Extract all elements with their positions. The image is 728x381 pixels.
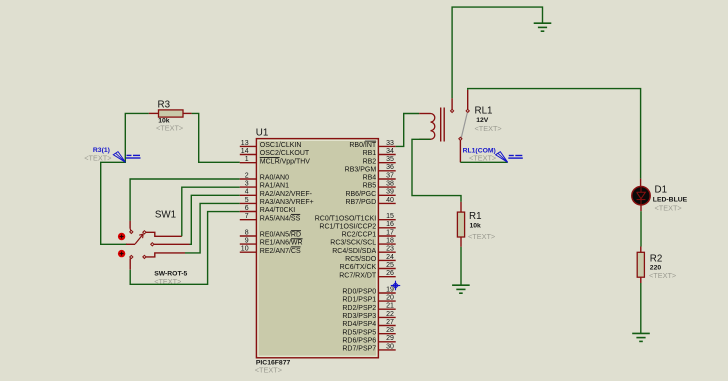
svg-text:OSC2/CLKOUT: OSC2/CLKOUT (260, 150, 310, 157)
wire SW1 throw3 to U1 pin 4 RA2 (190, 195, 240, 244)
U1 pin 28 (RD5/PSP5) (342, 327, 395, 336)
svg-text:29: 29 (386, 335, 394, 342)
wire SW1 throw4 to U1 pin 5 RA3 (185, 203, 240, 253)
svg-text:<TEXT>: <TEXT> (255, 365, 282, 374)
RL1 fixed contact 1 (451, 98, 454, 112)
wire RL1 contact2 to LED branch (468, 89, 641, 179)
svg-text:18: 18 (386, 238, 394, 245)
SW1 property label (154, 277, 181, 286)
SW1 actuator button down (118, 250, 125, 257)
svg-text:RD0/PSP0: RD0/PSP0 (342, 289, 376, 296)
svg-text:33: 33 (386, 140, 394, 147)
svg-text:38: 38 (386, 181, 394, 188)
wire U1 pin33 RB0 to RL1 coil top (396, 114, 420, 147)
svg-text:7: 7 (245, 213, 249, 220)
U1 pin 39 (RB6/PGC) (345, 189, 395, 198)
svg-text:RD1/PSP1: RD1/PSP1 (342, 297, 376, 304)
svg-text:25: 25 (386, 262, 394, 269)
svg-text:RC2/CCP1: RC2/CCP1 (342, 232, 377, 239)
ground below R2 (632, 333, 650, 341)
svg-text:8: 8 (245, 229, 249, 236)
voltage probe RL1(COM) (496, 152, 523, 163)
U1 pin 37 (RB4) (363, 172, 396, 181)
RL1 value label 12V (476, 117, 489, 124)
svg-text:15: 15 (386, 213, 394, 220)
R2 value label 220 (650, 264, 662, 271)
svg-text:MCLR/Vpp/THV: MCLR/Vpp/THV (260, 158, 311, 165)
U1 pin 16 (RC1/T1OSI/CCP2) (319, 221, 395, 230)
wire RL1 coil bottom to R1 (412, 139, 461, 202)
svg-text:13: 13 (241, 140, 249, 147)
U1 pin 4 (RA2/AN2/VREF-) (240, 189, 313, 198)
svg-text:27: 27 (386, 319, 394, 326)
SW1 throw 4 contact (143, 253, 185, 259)
svg-text:10: 10 (241, 246, 249, 253)
svg-text:3: 3 (245, 181, 249, 188)
U1 property label (255, 365, 282, 374)
svg-text:RD6/PSP6: RD6/PSP6 (342, 337, 376, 344)
svg-text:RB7/PGD: RB7/PGD (345, 199, 376, 206)
origin marker near pin 19 (391, 281, 400, 291)
svg-text:RB3/PGM: RB3/PGM (345, 166, 377, 173)
U1 pin 18 (RC3/SCK/SCL) (330, 238, 395, 247)
svg-text:30: 30 (386, 343, 394, 350)
U1 pin 24 (RC5/SDO) (345, 254, 396, 263)
svg-text:26: 26 (386, 270, 394, 277)
probe RL1(COM) property label (469, 154, 496, 163)
wire R3 left to probe corner to SW1 pole (101, 113, 149, 244)
RL1 movable contact arm (461, 113, 467, 139)
resistor R2 (637, 247, 644, 284)
SW1 throw 5 contact (130, 255, 133, 269)
microcontroller U1 body (256, 139, 378, 358)
svg-text:RC0/T1OSO/T1CKI: RC0/T1OSO/T1CKI (315, 215, 377, 222)
resistor R3 (149, 110, 192, 117)
U1 pin 25 (RC6/TX/CK) (340, 262, 396, 271)
svg-text:<TEXT>: <TEXT> (84, 153, 111, 162)
svg-text:9: 9 (245, 238, 249, 245)
svg-text:RB5: RB5 (363, 183, 377, 190)
voltage probe R3(1) (113, 152, 140, 163)
R1 property label (468, 232, 495, 241)
R1 value label 10k (470, 223, 482, 230)
U1 pin 8 (RE0/AN5/RD) (240, 229, 301, 238)
U1 pin 33 (RB0/INT) (349, 140, 395, 149)
RL1 common pin with arrow (459, 137, 462, 162)
wire SW1 throw5 to U1 pin 6 RA4 (130, 212, 240, 285)
svg-text:RA5/AN4/SS: RA5/AN4/SS (260, 215, 301, 222)
svg-text:39: 39 (386, 189, 394, 196)
svg-text:U1: U1 (256, 127, 269, 138)
svg-text:RA1/AN1: RA1/AN1 (260, 183, 289, 190)
U1 pin 40 (RB7/PGD) (345, 197, 395, 206)
svg-text:14: 14 (241, 148, 249, 155)
svg-text:<TEXT>: <TEXT> (475, 124, 502, 133)
svg-text:RC1/T1OSI/CCP2: RC1/T1OSI/CCP2 (319, 223, 376, 230)
U1 pin 13 (OSC1/CLKIN) (240, 140, 302, 149)
R1 reference label (469, 211, 482, 222)
svg-text:23: 23 (386, 246, 394, 253)
svg-text:34: 34 (386, 148, 394, 155)
U1 pin 21 (RD2/PSP2) (342, 303, 395, 312)
wire SW1 throw1 to U1 pin 2 RA0 (130, 179, 240, 221)
wire RL1 contact1 to top ground (452, 7, 542, 98)
SW1 throw 3 contact (151, 243, 190, 246)
svg-text:<TEXT>: <TEXT> (468, 232, 495, 241)
svg-text:5: 5 (245, 197, 249, 204)
SW1 value label SW-ROT-5 (154, 271, 187, 278)
RL1 property label (475, 124, 502, 133)
probe R3(1) property label (84, 153, 111, 162)
U1 pin 35 (RB2) (363, 156, 396, 165)
U1 pin 27 (RD4/PSP4) (342, 319, 395, 328)
svg-text:RA3/AN3/VREF+: RA3/AN3/VREF+ (260, 199, 314, 206)
U1 reference label (256, 127, 269, 138)
svg-text:RE2/AN7/CS: RE2/AN7/CS (260, 248, 301, 255)
R2 reference label (650, 253, 663, 264)
svg-text:<TEXT>: <TEXT> (655, 204, 682, 213)
svg-text:24: 24 (386, 254, 394, 261)
SW1 throw 1 contact (130, 221, 133, 234)
svg-text:19: 19 (386, 286, 394, 293)
R2 property label (649, 271, 676, 280)
svg-text:RD3/PSP3: RD3/PSP3 (342, 313, 376, 320)
svg-text:1: 1 (245, 156, 249, 163)
svg-text:RD7/PSP7: RD7/PSP7 (342, 346, 376, 353)
rotary switch SW1 pole pin (126, 243, 135, 245)
svg-text:R1: R1 (469, 211, 482, 222)
U1 pin 3 (RA1/AN1) (240, 181, 289, 190)
probe label RL1(COM) (463, 147, 496, 154)
SW1 rotor arm with arrowhead (135, 234, 143, 244)
svg-text:37: 37 (386, 172, 394, 179)
R3 reference label (158, 100, 171, 111)
U1 pin 26 (RC7/RX/DT) (339, 270, 395, 279)
U1 pin 10 (RE2/AN7/CS) (240, 246, 301, 255)
U1 pin 30 (RD7/PSP7) (342, 343, 395, 352)
svg-text:RB4: RB4 (363, 175, 377, 182)
svg-text:RD2/PSP2: RD2/PSP2 (342, 305, 376, 312)
SW1 throw 2 contact (143, 231, 182, 237)
U1 pin 6 (RA4/T0CKI) (240, 205, 295, 214)
wire R2 to ground (640, 283, 642, 333)
svg-text:RB2: RB2 (363, 158, 377, 165)
U1 pin 14 (OSC2/CLKOUT) (240, 148, 310, 157)
svg-text:RB1: RB1 (363, 150, 377, 157)
svg-text:D1: D1 (655, 184, 668, 195)
LED D1 (632, 179, 650, 212)
svg-text:RC7/RX/DT: RC7/RX/DT (339, 272, 377, 279)
ground below R1 (452, 285, 470, 293)
svg-text:2: 2 (245, 172, 249, 179)
svg-text:20: 20 (386, 295, 394, 302)
wire SW1 throw2 to U1 pin 3 RA1 (182, 187, 240, 236)
U1 pin 5 (RA3/AN3/VREF+) (240, 197, 314, 206)
ground top right (534, 23, 552, 31)
SW1 actuator button up (118, 233, 125, 240)
U1 pin 9 (RE1/AN6/WR) (240, 238, 303, 247)
svg-text:RC4/SDI/SDA: RC4/SDI/SDA (332, 248, 376, 255)
SW1 reference label (155, 209, 176, 220)
R3 value label 10k (158, 118, 170, 125)
wire R1 to ground (460, 247, 462, 285)
U1 value label PIC16F877 (256, 360, 291, 367)
svg-text:<TEXT>: <TEXT> (156, 123, 183, 132)
svg-text:RC3/SCK/SCL: RC3/SCK/SCL (330, 240, 376, 247)
U1 pin 23 (RC4/SDI/SDA) (332, 246, 395, 255)
RL1 reference label (475, 105, 493, 116)
svg-text:RA2/AN2/VREF-: RA2/AN2/VREF- (260, 191, 313, 198)
svg-text:LED-BLUE: LED-BLUE (653, 197, 688, 204)
U1 pin 15 (RC0/T1OSO/T1CKI) (315, 213, 396, 222)
svg-text:RB0/INT: RB0/INT (349, 142, 377, 149)
probe label R3(1) (93, 147, 110, 154)
svg-text:22: 22 (386, 311, 394, 318)
svg-text:RE1/AN6/WR: RE1/AN6/WR (260, 240, 303, 247)
svg-text:17: 17 (386, 229, 394, 236)
svg-text:SW1: SW1 (155, 209, 176, 220)
U1 pin 22 (RD3/PSP3) (342, 311, 395, 320)
U1 pin 1 (MCLR/Vpp/THV) (240, 156, 311, 165)
svg-text:RC5/SDO: RC5/SDO (345, 256, 377, 263)
wire D1 to R2 (640, 211, 642, 246)
svg-text:<TEXT>: <TEXT> (469, 154, 496, 163)
svg-text:6: 6 (245, 205, 249, 212)
wire R3 right to U1 pin 1 MCLR (192, 113, 240, 162)
RL1 fixed contact 2 (466, 90, 469, 113)
svg-text:<TEXT>: <TEXT> (649, 271, 676, 280)
svg-text:RA0/AN0: RA0/AN0 (260, 175, 289, 182)
U1 pin 29 (RD6/PSP6) (342, 335, 395, 344)
R3 property label (156, 123, 183, 132)
U1 pin 7 (RA5/AN4/SS) (240, 213, 301, 222)
RL1 core bars (441, 108, 445, 142)
svg-text:10k: 10k (470, 223, 482, 230)
svg-text:RC6/TX/CK: RC6/TX/CK (340, 264, 377, 271)
svg-text:28: 28 (386, 327, 394, 334)
U1 pin 38 (RB5) (363, 181, 396, 190)
svg-text:21: 21 (386, 303, 394, 310)
relay RL1 coil (419, 114, 435, 140)
svg-text:RE0/AN5/RD: RE0/AN5/RD (260, 232, 301, 239)
D1 reference label (655, 184, 668, 195)
U1 pin 17 (RC2/CCP1) (342, 229, 396, 238)
svg-text:40: 40 (386, 197, 394, 204)
svg-text:RL1: RL1 (475, 105, 493, 116)
U1 pin 2 (RA0/AN0) (240, 172, 289, 181)
svg-text:R2: R2 (650, 253, 663, 264)
D1 value label LED-BLUE (653, 197, 688, 204)
svg-text:R3: R3 (158, 100, 171, 111)
U1 pin 34 (RB1) (363, 148, 396, 157)
svg-text:35: 35 (386, 156, 394, 163)
svg-text:RD5/PSP5: RD5/PSP5 (342, 329, 376, 336)
D1 property label (655, 204, 682, 213)
svg-text:36: 36 (386, 164, 394, 171)
svg-text:4: 4 (245, 189, 249, 196)
svg-text:OSC1/CLKIN: OSC1/CLKIN (260, 142, 302, 149)
resistor R1 (457, 202, 464, 247)
svg-text:RB6/PGC: RB6/PGC (345, 191, 376, 198)
svg-text:16: 16 (386, 221, 394, 228)
wire RL1 common to probe (460, 161, 507, 163)
U1 pin 36 (RB3/PGM) (345, 164, 396, 173)
svg-text:RD4/PSP4: RD4/PSP4 (342, 321, 376, 328)
U1 pin 20 (RD1/PSP1) (342, 295, 395, 304)
svg-text:RA4/T0CKI: RA4/T0CKI (260, 207, 295, 214)
U1 pin 19 (RD0/PSP0) (342, 286, 395, 295)
